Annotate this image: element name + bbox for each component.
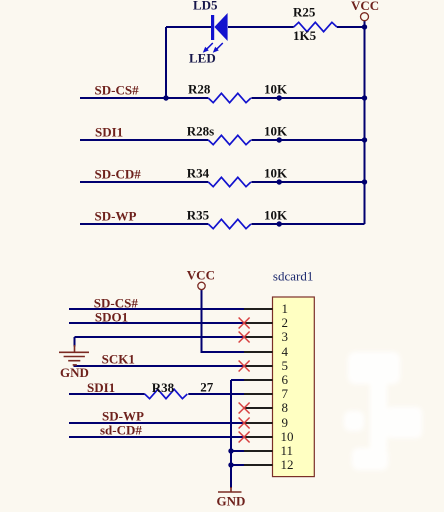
svg-text:10K: 10K: [264, 82, 288, 97]
svg-text:SDI1: SDI1: [95, 125, 123, 140]
svg-text:R28: R28: [188, 82, 211, 97]
svg-text:SCK1: SCK1: [102, 351, 135, 366]
svg-text:4: 4: [282, 344, 289, 359]
svg-text:GND: GND: [217, 494, 246, 509]
svg-text:8: 8: [282, 400, 289, 415]
svg-text:SD-WP: SD-WP: [102, 408, 144, 423]
svg-text:9: 9: [282, 415, 289, 430]
svg-text:10K: 10K: [264, 124, 288, 139]
svg-text:SDI1: SDI1: [87, 380, 115, 395]
svg-text:1: 1: [282, 301, 289, 316]
svg-text:10: 10: [281, 429, 294, 444]
svg-text:LED: LED: [189, 51, 216, 66]
svg-text:2: 2: [282, 315, 289, 330]
svg-text:3: 3: [282, 329, 289, 344]
svg-text:SD-WP: SD-WP: [95, 209, 137, 224]
svg-text:SDO1: SDO1: [95, 309, 128, 324]
svg-text:VCC: VCC: [351, 0, 379, 13]
svg-text:1K5: 1K5: [293, 28, 317, 43]
svg-text:7: 7: [282, 386, 289, 401]
svg-text:LD5: LD5: [193, 0, 218, 13]
svg-text:R38: R38: [152, 380, 175, 395]
svg-text:10K: 10K: [264, 166, 288, 181]
svg-text:sdcard1: sdcard1: [273, 269, 313, 284]
svg-text:sd-CD#: sd-CD#: [100, 423, 142, 438]
svg-text:12: 12: [281, 457, 294, 472]
svg-text:R34: R34: [187, 166, 210, 181]
svg-text:SD-CS#: SD-CS#: [94, 295, 139, 310]
svg-text:R25: R25: [293, 5, 316, 20]
svg-text:5: 5: [282, 358, 289, 373]
svg-text:10K: 10K: [264, 208, 288, 223]
svg-text:SD-CS#: SD-CS#: [95, 83, 140, 98]
svg-text:R35: R35: [187, 208, 210, 223]
svg-text:11: 11: [281, 443, 294, 458]
svg-text:6: 6: [282, 372, 289, 387]
svg-text:SD-CD#: SD-CD#: [95, 167, 142, 182]
svg-text:R28s: R28s: [187, 124, 214, 139]
svg-text:VCC: VCC: [187, 267, 215, 282]
svg-text:27: 27: [200, 380, 214, 395]
svg-text:GND: GND: [60, 365, 89, 380]
